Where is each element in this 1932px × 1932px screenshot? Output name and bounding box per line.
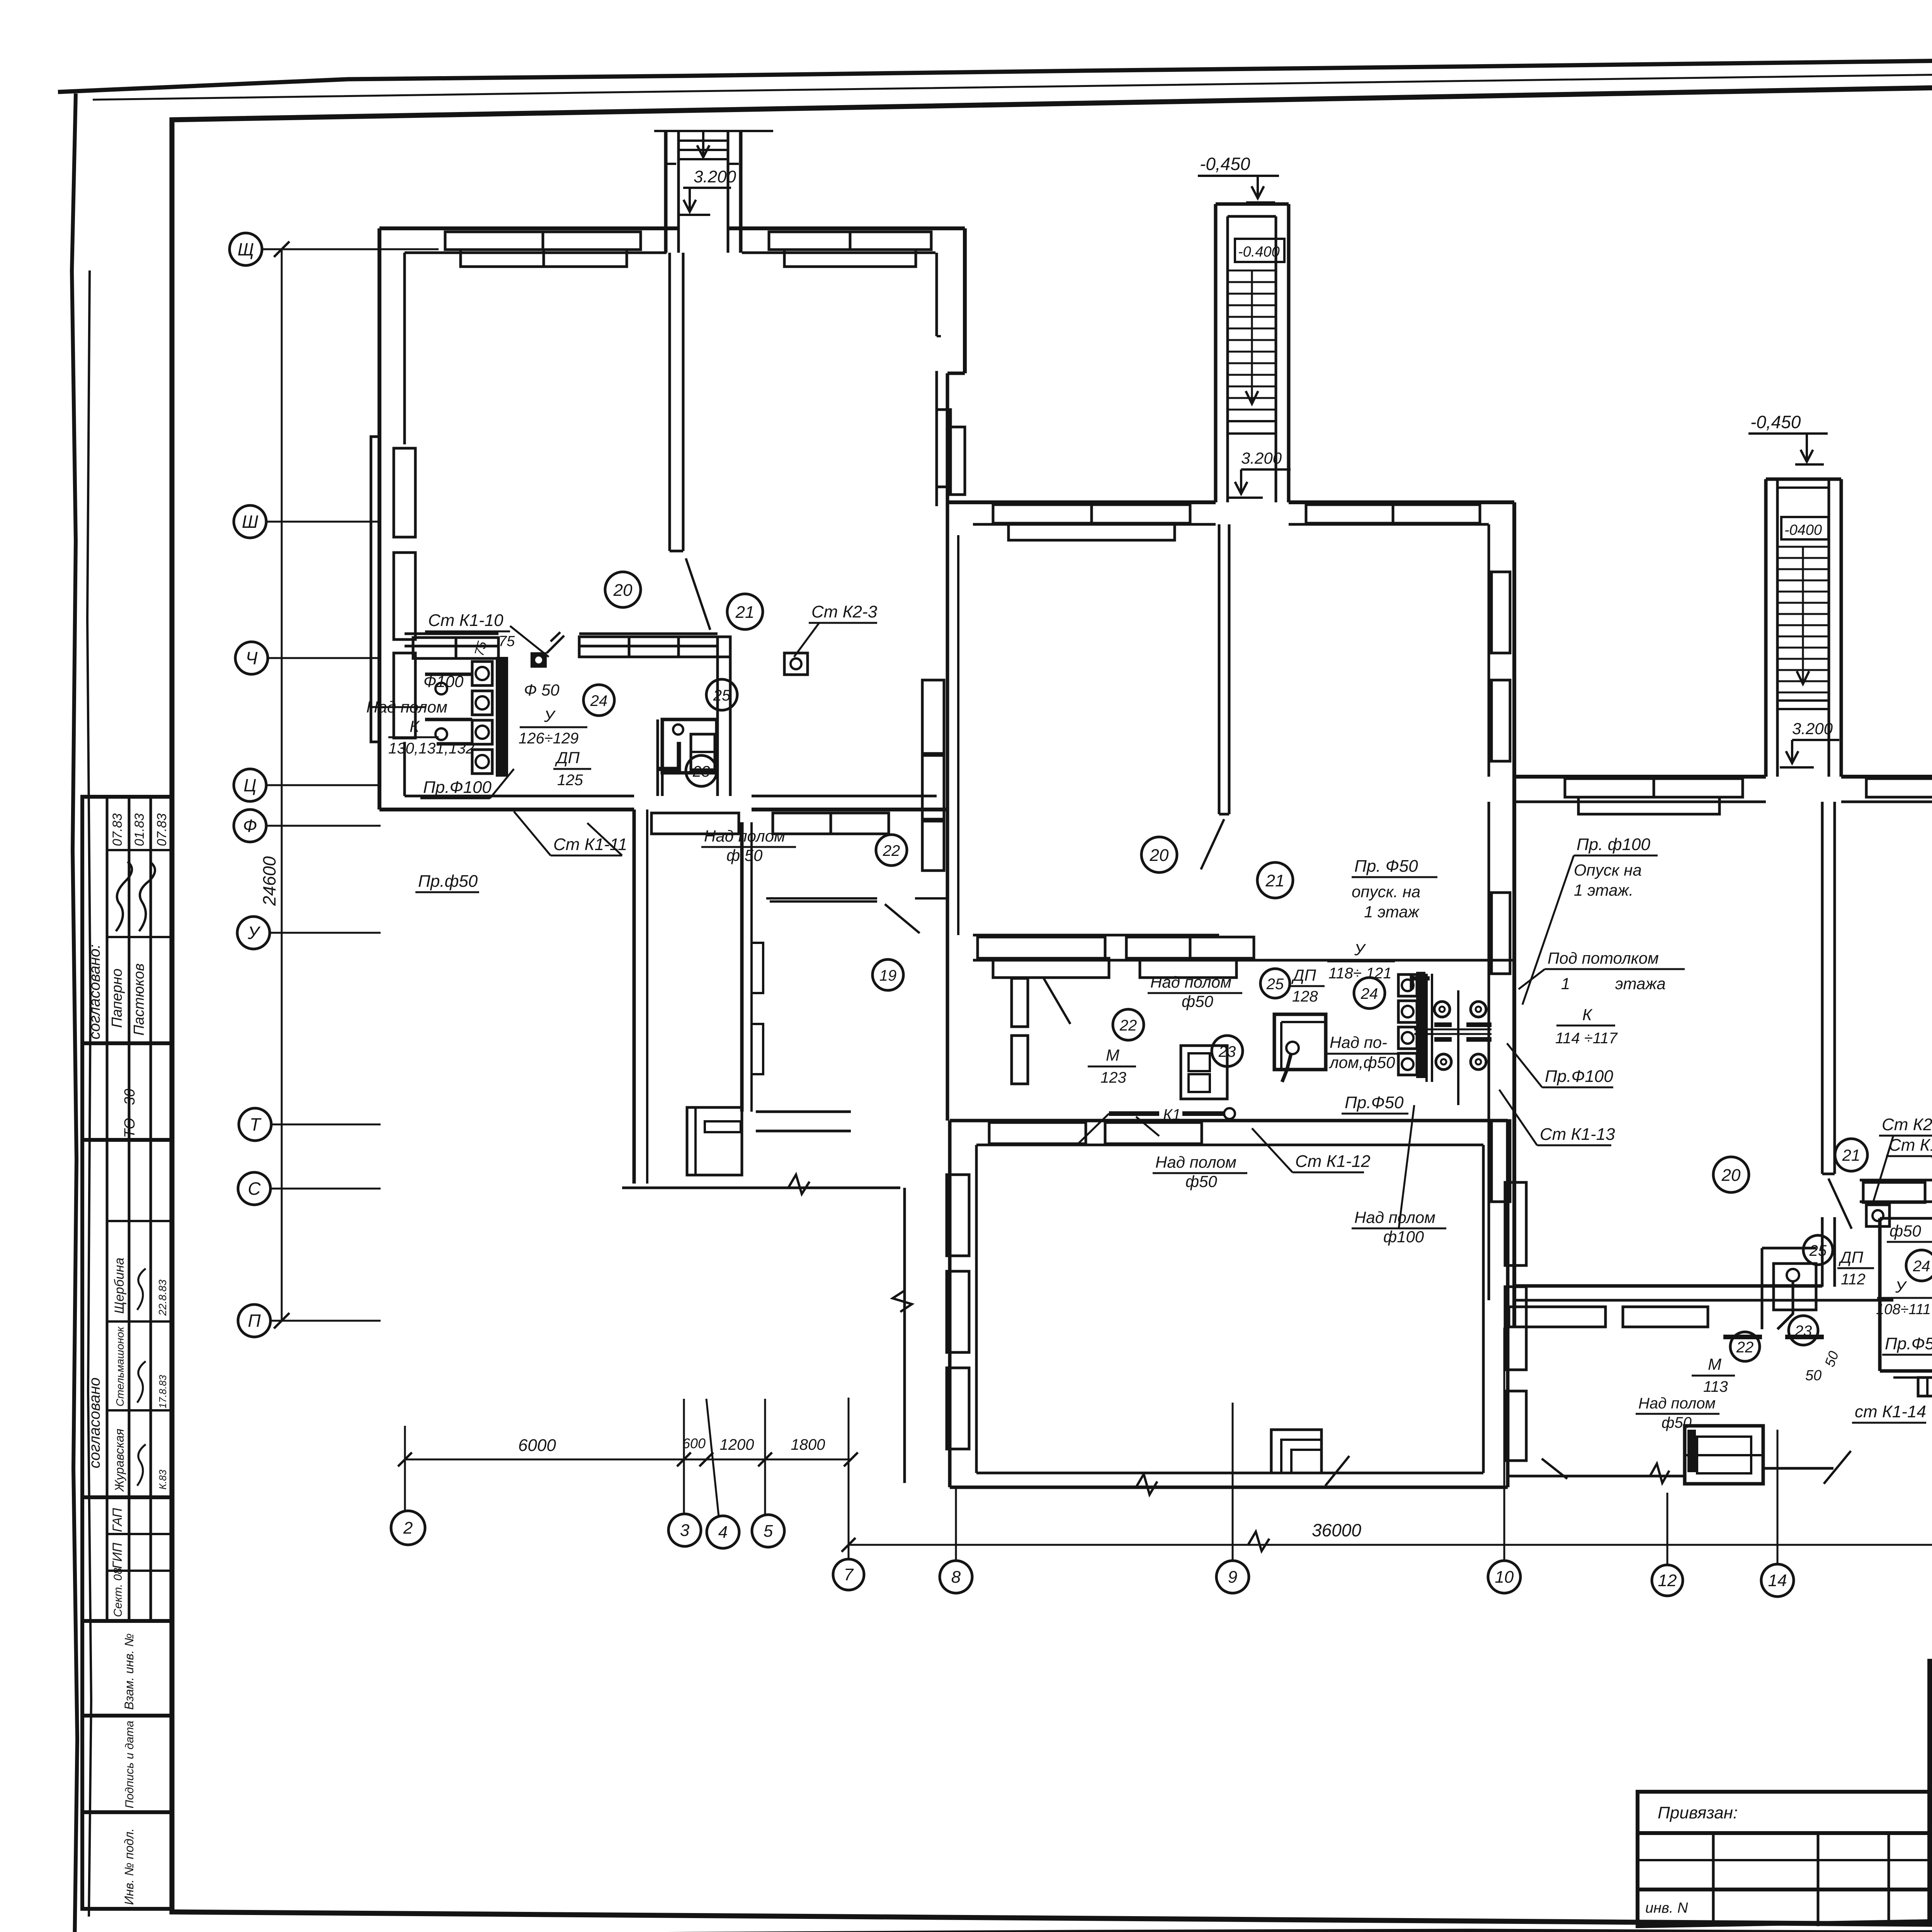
axis circle 5 <box>752 1515 784 1547</box>
svg-text:Над полом: Над полом <box>1638 1395 1716 1412</box>
block A window bar north 2 <box>461 250 627 267</box>
svg-text:М: М <box>1106 1046 1119 1064</box>
block A south window bars <box>651 813 739 834</box>
block A east wall jog <box>947 372 965 375</box>
circle 25 B <box>1260 969 1290 998</box>
corridor west wall <box>633 810 636 1184</box>
stamp vertical line 3 <box>150 797 152 1621</box>
block C person symbol <box>1787 1269 1799 1281</box>
leader StK2-3 <box>794 623 819 657</box>
svg-text:22.8.83: 22.8.83 <box>156 1279 168 1316</box>
svg-text:Под потолком: Под потолком <box>1548 949 1659 967</box>
svg-text:Ф: Ф <box>243 816 257 836</box>
svg-text:21: 21 <box>1842 1146 1861 1164</box>
svg-text:К1: К1 <box>1163 1106 1181 1123</box>
room 22B top wall <box>766 897 877 900</box>
block B west niches <box>922 680 944 753</box>
svg-text:ф100: ф100 <box>1383 1228 1424 1246</box>
door swing at wing SE <box>1542 1459 1567 1479</box>
svg-text:Над по-: Над по- <box>1330 1033 1387 1051</box>
scan outer border top <box>58 49 1932 92</box>
block C buffet room <box>1761 1248 1764 1329</box>
wing east niches <box>1505 1182 1526 1265</box>
svg-text:У: У <box>1354 940 1366 959</box>
room circle 21 A <box>727 594 763 629</box>
block A leader lines sanitary <box>510 626 549 657</box>
svg-text:этажа: этажа <box>1615 975 1666 993</box>
stair B lower opening walls <box>1226 434 1229 502</box>
privyazan box <box>1638 1792 1930 1926</box>
circle 24 B <box>1354 978 1385 1009</box>
stamp sec3 internal <box>107 1220 172 1222</box>
axis leader <box>266 784 381 786</box>
wing exit steps structure <box>1271 1430 1321 1473</box>
svg-text:20: 20 <box>1721 1166 1741 1185</box>
svg-text:Пр. Ф50: Пр. Ф50 <box>1354 857 1418 876</box>
block B north window bars <box>993 505 1190 523</box>
block A partition 24|25 <box>716 637 719 796</box>
axis circle 10 <box>1488 1561 1520 1593</box>
circle 21 B <box>1257 862 1293 898</box>
svg-text:1: 1 <box>1561 975 1570 993</box>
corridor east wall niches <box>752 943 763 993</box>
svg-text:Ст К2-3: Ст К2-3 <box>811 602 878 621</box>
block B K1 black pipe <box>1109 1111 1225 1116</box>
circle 22 C <box>1730 1332 1760 1361</box>
svg-text:У: У <box>247 923 261 943</box>
block C fixtures StK2-4 <box>1866 1205 1889 1226</box>
block A west wall jog <box>371 437 379 742</box>
svg-text:-0,450: -0,450 <box>1200 154 1250 174</box>
svg-text:24: 24 <box>1361 985 1378 1002</box>
axis circle 12 <box>1652 1565 1683 1596</box>
block B north wall <box>947 500 1216 504</box>
block A pipe circles <box>435 683 447 694</box>
block C partition 20|21 <box>1821 802 1824 1174</box>
axis circle Щ <box>230 233 262 265</box>
svg-text:У: У <box>1895 1278 1907 1296</box>
wing west wall <box>948 1121 952 1487</box>
stair B treads <box>1228 270 1276 421</box>
svg-text:1 этаж: 1 этаж <box>1364 903 1420 921</box>
svg-text:У: У <box>544 707 556 725</box>
svg-text:Т: Т <box>250 1114 262 1134</box>
svg-text:22: 22 <box>1736 1339 1754 1356</box>
svg-text:3.200: 3.200 <box>694 167 736 186</box>
signature table outer <box>1930 1657 1932 1921</box>
svg-text:Подпись и дата: Подпись и дата <box>123 1721 136 1808</box>
stair C treads <box>1777 547 1829 692</box>
axis leader <box>270 1188 381 1190</box>
fixture at A stack top <box>531 652 547 668</box>
svg-text:Над полом: Над полом <box>1155 1153 1236 1171</box>
svg-text:Над полом: Над полом <box>1354 1208 1435 1226</box>
svg-text:Ф 50: Ф 50 <box>524 681 560 699</box>
svg-text:Сект. 08: Сект. 08 <box>112 1568 124 1617</box>
block B toilets <box>1398 975 1417 996</box>
wing connector line <box>622 1187 900 1189</box>
axis circle 4 <box>707 1516 739 1548</box>
svg-text:К: К <box>1582 1005 1593 1024</box>
svg-text:108÷111: 108÷111 <box>1876 1301 1931 1318</box>
svg-text:1800: 1800 <box>791 1436 825 1453</box>
stamp section line 3 <box>82 1495 172 1499</box>
axis leader <box>266 825 381 827</box>
block C sanitary room west wall <box>1878 1218 1882 1371</box>
block B door swing <box>1201 819 1224 869</box>
svg-text:113: 113 <box>1703 1378 1728 1395</box>
svg-text:24: 24 <box>590 692 608 709</box>
stair C landing <box>1777 699 1829 702</box>
block A window bar north 3 <box>769 232 931 250</box>
stamp section line 1 <box>82 1041 172 1045</box>
block C room21 south window bars <box>1863 1182 1925 1202</box>
block B cupboard DP box <box>1181 1046 1227 1099</box>
svg-text:опуск. на: опуск. на <box>1352 883 1420 901</box>
svg-text:17.8.83: 17.8.83 <box>157 1375 168 1408</box>
block A south wall <box>379 808 634 811</box>
axis leader <box>266 521 381 523</box>
svg-text:Щербина: Щербина <box>112 1258 127 1314</box>
svg-text:24600: 24600 <box>259 856 279 906</box>
-0.400 box C <box>1781 517 1828 539</box>
stamp vertical line 2 <box>128 797 131 1621</box>
block B K1 drain circle <box>1224 1108 1235 1119</box>
svg-text:ф 50: ф 50 <box>726 846 763 864</box>
block B east wall inner <box>1488 524 1490 777</box>
svg-text:25: 25 <box>713 687 731 704</box>
stair tower A left wall <box>664 131 668 253</box>
svg-text:Пр.Ф100: Пр.Ф100 <box>423 778 492 797</box>
axis circle 14 <box>1761 1564 1794 1597</box>
svg-text:3.200: 3.200 <box>1241 449 1282 467</box>
svg-text:ГИП: ГИП <box>110 1543 125 1569</box>
scan outer border bottom wavy 1 <box>47 1930 1932 1932</box>
svg-text:07.83: 07.83 <box>110 813 125 846</box>
svg-text:22: 22 <box>883 842 900 859</box>
svg-text:8: 8 <box>951 1568 961 1587</box>
block A pipes horizontal <box>425 673 472 676</box>
sig empty row line <box>1930 1735 1932 1737</box>
scan thin line under top border <box>93 66 1932 100</box>
corridor bottom steps structure <box>687 1107 742 1175</box>
corridor bottom walls <box>756 1111 851 1113</box>
stair B landing <box>1228 420 1276 422</box>
block A west wall outer <box>378 228 381 810</box>
block C room21 south wall <box>1860 1179 1932 1182</box>
axis circle Ч <box>235 642 268 674</box>
axis leader <box>268 657 381 659</box>
block A dim 75 ticks <box>547 632 564 653</box>
svg-text:-0.400: -0.400 <box>1238 244 1280 260</box>
block A window bar north 1 <box>445 232 641 250</box>
svg-text:согласовано: согласовано <box>86 1378 103 1468</box>
room circle 24 A <box>583 685 614 716</box>
svg-text:ф50: ф50 <box>1662 1414 1692 1431</box>
stair C center line arrow <box>1802 547 1804 682</box>
vertical dimension line 24600 <box>281 249 283 1321</box>
svg-text:Привязан:: Привязан: <box>1658 1803 1738 1822</box>
svg-text:Ч: Ч <box>246 648 258 668</box>
svg-text:6000: 6000 <box>518 1436 556 1455</box>
svg-text:12: 12 <box>1658 1571 1677 1590</box>
svg-text:1200: 1200 <box>720 1436 754 1453</box>
block B thin vertical line <box>1457 990 1459 1105</box>
block B east wall <box>1512 502 1516 1326</box>
svg-text:С: С <box>248 1179 261 1199</box>
svg-text:ст К1-14: ст К1-14 <box>1855 1402 1926 1421</box>
block B south window bars <box>978 937 1105 958</box>
wing outline top inner <box>976 1144 1483 1146</box>
dimension line 6000-1800 <box>405 1459 851 1461</box>
stair tower A arrow <box>697 131 709 157</box>
block B gamma pipe top <box>1412 976 1430 989</box>
sig row line <box>1930 1896 1932 1898</box>
privyazan v-lines <box>1712 1833 1715 1926</box>
block B stack double line <box>1425 974 1428 1082</box>
break slash at C bottom <box>1824 1451 1851 1484</box>
block B person symbol <box>1286 1042 1299 1054</box>
circle 23 B <box>1212 1036 1243 1066</box>
circle 23 C <box>1789 1316 1818 1345</box>
block C room20 south wall <box>1514 1284 1822 1288</box>
svg-text:20: 20 <box>613 581 633 600</box>
svg-text:К: К <box>410 717 420 735</box>
svg-text:600: 600 <box>682 1435 706 1451</box>
svg-text:23: 23 <box>1794 1323 1812 1340</box>
axis circle Ф <box>234 810 266 842</box>
block A east wall niches <box>937 410 951 487</box>
svg-text:Ц: Ц <box>243 775 256 795</box>
stair tower B top <box>1216 202 1289 206</box>
svg-text:3: 3 <box>680 1521 690 1540</box>
svg-text:50: 50 <box>1805 1367 1821 1384</box>
svg-text:125: 125 <box>557 772 583 789</box>
axis circle Ц <box>234 769 266 801</box>
axis circle Т <box>239 1108 271 1141</box>
svg-text:114 ÷117: 114 ÷117 <box>1555 1030 1618 1047</box>
svg-text:128: 128 <box>1292 988 1318 1005</box>
stair tower A top line <box>654 130 773 132</box>
stamp sec1 internal lines <box>107 849 172 851</box>
svg-text:126÷129: 126÷129 <box>519 730 578 747</box>
svg-text:ТО: ТО <box>122 1118 138 1138</box>
axis circle 9 <box>1216 1561 1249 1593</box>
circle 24 C <box>1906 1250 1932 1281</box>
stamp section line 2 <box>82 1138 172 1142</box>
block A buffet black pipe <box>657 742 679 769</box>
axis leader <box>270 1320 381 1322</box>
block B south wall of rooms <box>973 934 1219 937</box>
wing west niches <box>947 1175 969 1256</box>
sig row line <box>1930 1849 1932 1852</box>
svg-text:Ст К1-13: Ст К1-13 <box>1540 1125 1615 1144</box>
axis circle П <box>238 1304 270 1337</box>
svg-text:М: М <box>1708 1355 1721 1373</box>
svg-text:Опуск на: Опуск на <box>1574 861 1642 879</box>
stamp section line 6 <box>82 1810 172 1814</box>
break on that wall <box>1650 1464 1669 1483</box>
dim tick <box>758 1452 772 1466</box>
block B toilet stack bar <box>1416 972 1425 1078</box>
svg-text:2: 2 <box>403 1519 413 1537</box>
circle 25 C <box>1803 1235 1833 1265</box>
svg-text:1 этаж.: 1 этаж. <box>1574 881 1633 899</box>
sig empty row line <box>1930 1708 1932 1710</box>
break mark on west break line <box>893 1291 912 1312</box>
wing east wall <box>1506 1121 1510 1487</box>
svg-text:123: 123 <box>1100 1069 1126 1086</box>
block C door swing <box>1828 1179 1852 1229</box>
svg-text:лом,ф50: лом,ф50 <box>1328 1053 1395 1071</box>
dim leaders verticals <box>404 1426 406 1512</box>
svg-text:ф50: ф50 <box>1889 1222 1921 1240</box>
svg-text:ДП: ДП <box>1291 966 1316 984</box>
block C entry steps bottom <box>1685 1426 1763 1484</box>
break mark on connector <box>788 1175 810 1194</box>
block C sanitary porch <box>1918 1378 1932 1396</box>
svg-text:30: 30 <box>122 1089 138 1105</box>
sig row line <box>1930 1826 1932 1828</box>
svg-text:Взам. инв. №: Взам. инв. № <box>122 1633 136 1710</box>
sig row line <box>1930 1804 1932 1806</box>
block C north wall <box>1514 775 1766 779</box>
dim tick top <box>274 241 289 257</box>
stamp sec4 internal <box>107 1533 172 1535</box>
svg-text:112: 112 <box>1841 1271 1866 1288</box>
room circle 20 A <box>605 572 641 607</box>
svg-text:5: 5 <box>764 1522 773 1541</box>
leaders B <box>1078 1114 1109 1144</box>
stair tower A treads <box>679 139 728 142</box>
dim tick <box>677 1452 691 1466</box>
circle 20 C <box>1713 1157 1749 1192</box>
block A west wall inner <box>403 253 406 444</box>
svg-text:Ф100: Ф100 <box>423 672 464 690</box>
svg-text:9: 9 <box>1228 1568 1237 1587</box>
svg-text:Ст К1-15: Ст К1-15 <box>1889 1136 1932 1155</box>
svg-text:-0,450: -0,450 <box>1750 412 1801 432</box>
block B buffet box <box>1274 1014 1326 1070</box>
wing outline top <box>950 1119 1508 1122</box>
block A east wall outer lower <box>946 373 949 1121</box>
svg-text:Паперно: Паперно <box>109 969 125 1028</box>
block A east wall outer upper <box>963 228 967 373</box>
stamp sec1 signatures <box>116 862 132 931</box>
break on 36000 line <box>1248 1532 1269 1551</box>
svg-text:07.83: 07.83 <box>155 813 169 846</box>
block A west wall niches <box>394 448 415 537</box>
svg-text:19: 19 <box>879 967 897 984</box>
door swing 19 <box>1043 978 1070 1024</box>
block A sanitary window bars right <box>579 637 730 657</box>
leaders to bottom circles <box>848 1398 850 1558</box>
sig empty row line <box>1930 1684 1932 1687</box>
block B west wall inner <box>957 535 959 935</box>
block A partition 20|21 <box>668 253 671 551</box>
wing south wall <box>950 1486 1508 1489</box>
break slash at wing exit <box>1325 1456 1349 1486</box>
stamp section line 5 <box>82 1714 172 1718</box>
svg-text:ф50: ф50 <box>1182 992 1213 1010</box>
svg-text:Пр. ф100: Пр. ф100 <box>1577 835 1651 854</box>
block A room23 west wall <box>656 719 659 796</box>
break on wing south <box>1136 1474 1157 1495</box>
sig row line <box>1930 1872 1932 1874</box>
axis circle У <box>237 917 270 949</box>
stair tower C right wall <box>1840 479 1843 777</box>
svg-text:22: 22 <box>1119 1017 1137 1034</box>
dim tick bottom <box>274 1313 289 1328</box>
dim tick <box>699 1452 713 1466</box>
dimension line 36000 <box>849 1544 1932 1546</box>
svg-text:ГАП: ГАП <box>110 1508 125 1532</box>
svg-text:согласовано:: согласовано: <box>86 944 103 1039</box>
svg-text:21: 21 <box>735 603 755 622</box>
block B partition 20|21 <box>1218 524 1221 814</box>
axis circle 3 <box>668 1514 701 1546</box>
svg-text:24: 24 <box>1913 1258 1930 1275</box>
svg-text:Стельмашонок: Стельмашонок <box>114 1326 126 1406</box>
svg-text:-0400: -0400 <box>1784 522 1822 538</box>
block B pipe thin rail <box>1414 1029 1492 1031</box>
block B pipe bars <box>1434 1025 1492 1039</box>
block C sanitary room bottom wall <box>1880 1369 1932 1373</box>
block C room20 south window bars <box>1509 1307 1605 1327</box>
svg-text:Пр.ф50: Пр.ф50 <box>418 872 478 891</box>
svg-text:21: 21 <box>1265 871 1285 890</box>
svg-text:Пр.Ф100: Пр.Ф100 <box>1545 1067 1613 1086</box>
block A toilets <box>472 662 492 685</box>
wall line between wing and M113 <box>1508 1475 1685 1478</box>
stair tower C top <box>1766 478 1841 481</box>
block C north wall inner <box>1514 801 1766 803</box>
sig row line <box>1930 1780 1932 1782</box>
svg-text:3.200: 3.200 <box>1792 719 1833 738</box>
svg-text:4: 4 <box>718 1523 728 1542</box>
block A east wall inner <box>935 253 938 336</box>
circle 21 C <box>1835 1139 1867 1171</box>
svg-text:П: П <box>248 1311 261 1331</box>
svg-text:Ш: Ш <box>242 512 259 532</box>
axis leader <box>270 932 381 934</box>
svg-text:инв. N: инв. N <box>1645 1900 1688 1916</box>
axis leader <box>262 248 439 250</box>
axis circle С <box>238 1172 270 1205</box>
left stamp strip outer <box>82 797 172 1909</box>
block A south wall inner <box>405 795 634 798</box>
svg-text:75: 75 <box>498 633 515 650</box>
svg-text:Инв. № подл.: Инв. № подл. <box>122 1828 136 1905</box>
dim tick <box>844 1452 858 1466</box>
svg-text:01.83: 01.83 <box>132 813 147 846</box>
axis circle Ш <box>234 505 266 538</box>
stair tower A level mark <box>679 188 731 215</box>
svg-text:Ст К2-4: Ст К2-4 <box>1882 1115 1932 1134</box>
fixture StK2-3 <box>784 653 808 675</box>
svg-text:Пр.Ф50: Пр.Ф50 <box>1345 1093 1404 1112</box>
block C corridor wall 25 <box>1821 1217 1824 1287</box>
sig empty row line <box>1930 1757 1932 1759</box>
block A north wall outer <box>379 226 679 230</box>
block A north wall inner <box>405 252 667 254</box>
block C K1 pipe <box>1723 1335 1824 1339</box>
room circle 22 A <box>876 835 907 866</box>
axis circle 7 <box>833 1559 864 1590</box>
stair tower B left wall <box>1214 204 1218 502</box>
svg-text:Щ: Щ <box>238 239 254 259</box>
block C sanitary inner wall top <box>1880 1217 1932 1220</box>
